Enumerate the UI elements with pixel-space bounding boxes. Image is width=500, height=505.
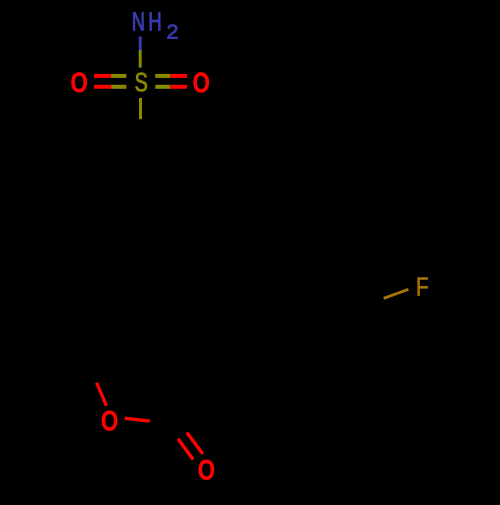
atom O (lactone ring oxygen) <box>103 411 117 430</box>
atom O (right sulfonyl oxygen) <box>194 73 208 92</box>
double bond S=O right, top line (O half red) <box>170 74 187 78</box>
bond C-O ring, upper-left of lactone oxygen (O half red) <box>97 383 107 406</box>
double bond S=O left, top line (O half red) <box>94 74 111 78</box>
bond S-C aryl (S half visible stub) <box>139 98 142 119</box>
atom O (left sulfonyl oxygen) <box>72 73 86 92</box>
double bond S=O left, bottom line (S half olive) <box>111 85 126 89</box>
double bond S=O right, bottom line (O half red) <box>170 85 187 89</box>
double bond C=O, outer line (O half red) <box>178 439 193 460</box>
atom F (fluorine) <box>418 277 428 295</box>
bond O-C carbonyl, to the right of lactone oxygen (O half red) <box>125 418 150 421</box>
double bond S=O right, bottom line (S half olive) <box>155 85 170 89</box>
double bond C=O, inner line (O half red) <box>187 432 203 454</box>
atom N of NH2 label, letter H <box>150 12 160 30</box>
double bond S=O right, top line (S half olive) <box>155 74 170 78</box>
atom N of NH2 label, letter N <box>133 12 143 30</box>
double bond S=O left, top line (S half olive) <box>111 74 126 78</box>
atom S (sulfonyl sulfur) <box>136 73 147 92</box>
double bond S=O left, bottom line (O half red) <box>94 85 111 89</box>
atom O (carbonyl oxygen) <box>199 460 213 479</box>
bond N-S (S half) <box>139 50 142 68</box>
atom N of NH2 label, subscript 2 <box>167 25 177 39</box>
bond C-F (F half golden) <box>384 289 409 298</box>
bond N-S (N half) <box>139 36 142 50</box>
